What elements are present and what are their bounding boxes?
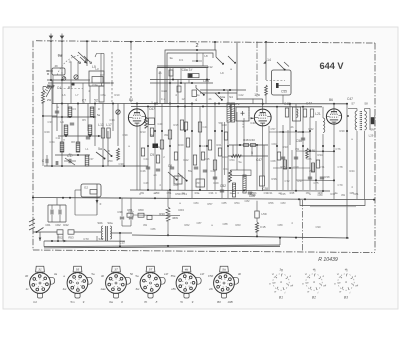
svg-text:C83: C83 xyxy=(281,201,286,205)
wire v90 xyxy=(89,86,91,104)
svg-text:R4a: R4a xyxy=(195,191,200,195)
base diagram B1 xyxy=(273,274,289,290)
capacitor C22 xyxy=(168,130,171,139)
resistor R19 xyxy=(213,160,216,170)
svg-text:L8: L8 xyxy=(204,54,208,58)
svg-text:R8: R8 xyxy=(71,140,75,144)
capacitor C21 xyxy=(198,122,201,132)
wire v237 xyxy=(236,112,238,170)
resistor ladder R10 xyxy=(68,107,72,117)
choke L59 xyxy=(255,211,259,218)
tube socket V6 xyxy=(233,277,239,284)
svg-text:2: 2 xyxy=(195,43,198,49)
base diagram B3 xyxy=(338,274,354,290)
svg-text:a4: a4 xyxy=(154,173,157,177)
svg-text:30: 30 xyxy=(25,274,29,278)
resistor R27 xyxy=(303,109,306,117)
svg-text:4W: 4W xyxy=(164,133,168,137)
svg-text:C72: C72 xyxy=(285,179,290,183)
coil box tall xyxy=(99,86,104,102)
choke L21 xyxy=(323,118,325,132)
bus hook x280 xyxy=(279,238,281,245)
svg-text:C88: C88 xyxy=(223,222,228,226)
resistor F15 xyxy=(255,222,258,232)
svg-text:C80: C80 xyxy=(318,193,323,197)
svg-text:R53: R53 xyxy=(68,236,74,240)
svg-text:B6: B6 xyxy=(329,98,333,102)
resistor R61 xyxy=(127,213,133,217)
svg-text:vt: vt xyxy=(337,272,339,276)
svg-text:3b: 3b xyxy=(238,272,242,276)
svg-text:12: 12 xyxy=(230,191,233,195)
capacitor C67 box xyxy=(149,118,155,125)
svg-text:C48: C48 xyxy=(211,169,216,173)
wire caps to bus xyxy=(56,198,58,205)
resistor ladder right2 xyxy=(311,163,314,172)
resistor R28 xyxy=(310,109,313,117)
svg-text:F: F xyxy=(100,202,102,206)
wire v277 xyxy=(276,107,278,190)
svg-text:R24: R24 xyxy=(224,167,229,171)
svg-text:12a: 12a xyxy=(254,93,260,97)
svg-text:55: 55 xyxy=(76,267,80,271)
svg-text:S8: S8 xyxy=(364,102,368,106)
svg-text:C b: C b xyxy=(179,58,184,62)
svg-text:3b: 3b xyxy=(101,274,105,278)
section divider dash-dot lower xyxy=(302,200,304,252)
svg-text:S7: S7 xyxy=(351,102,355,106)
svg-text:C13: C13 xyxy=(119,241,125,245)
svg-text:C64: C64 xyxy=(272,142,277,146)
coil L13 xyxy=(85,155,89,166)
svg-text:C75: C75 xyxy=(314,181,319,185)
svg-text:4W: 4W xyxy=(341,193,345,197)
svg-text:C44: C44 xyxy=(144,157,149,161)
tube socket V4 xyxy=(160,277,166,284)
svg-text:1b: 1b xyxy=(68,60,72,64)
svg-text:B1: B1 xyxy=(279,296,283,300)
svg-text:R49: R49 xyxy=(45,130,50,134)
resistor R25 xyxy=(265,85,268,95)
osc loop inner xyxy=(167,53,213,104)
svg-text:C33: C33 xyxy=(48,120,53,124)
volume pot box xyxy=(260,176,265,186)
svg-text:R 10439: R 10439 xyxy=(318,257,338,263)
trimmer C15 xyxy=(116,110,120,114)
resistor R9 xyxy=(117,148,120,160)
base diagram B2 xyxy=(306,274,322,290)
svg-text:C45: C45 xyxy=(205,157,210,161)
svg-text:2W: 2W xyxy=(47,98,52,102)
relay wire xyxy=(278,85,290,87)
wire y168 right xyxy=(273,167,310,169)
wire v292b xyxy=(291,150,293,190)
extra junction dots xyxy=(154,130,156,132)
wire v124 xyxy=(123,104,125,167)
svg-text:R42: R42 xyxy=(63,223,69,227)
svg-text:L3: L3 xyxy=(95,67,99,71)
IF winding K1 hatched xyxy=(227,103,230,122)
svg-text:C85: C85 xyxy=(222,201,227,205)
svg-text:C69: C69 xyxy=(294,165,299,169)
svg-text:1aw: 1aw xyxy=(100,287,106,291)
wire v157 xyxy=(156,68,158,104)
capacitor C77 xyxy=(129,216,133,218)
svg-text:3a: 3a xyxy=(169,56,173,60)
svg-text:C37: C37 xyxy=(89,157,94,161)
svg-text:C63: C63 xyxy=(178,208,184,212)
wire v288 xyxy=(287,130,289,190)
black blob pad xyxy=(153,144,159,149)
resistor R48 xyxy=(244,144,249,147)
switch S3c xyxy=(215,93,221,99)
output transformer S8 xyxy=(355,111,357,130)
wire y241 xyxy=(44,240,125,242)
capacitor C23b xyxy=(160,140,163,149)
svg-text:5a: 5a xyxy=(97,113,101,117)
extra caps xyxy=(146,166,150,168)
svg-text:5a: 5a xyxy=(239,160,242,164)
wire tube1 bottom xyxy=(136,126,138,190)
svg-text:S6b: S6b xyxy=(97,221,103,225)
wire v185b xyxy=(184,104,186,191)
svg-text:C78: C78 xyxy=(338,165,343,169)
svg-text:5b: 5b xyxy=(130,272,134,276)
wire left G2 connects xyxy=(75,189,81,191)
resistor R2 xyxy=(42,90,45,103)
wire v192 xyxy=(191,104,193,199)
svg-text:R35: R35 xyxy=(281,165,286,169)
svg-text:R63: R63 xyxy=(236,223,241,227)
mains switch S xyxy=(36,231,38,233)
wire top drop x87 xyxy=(86,41,88,61)
svg-text:F15: F15 xyxy=(260,225,266,229)
svg-text:L9: L9 xyxy=(220,71,224,75)
wire v108 xyxy=(107,131,109,166)
wire v347 xyxy=(346,104,348,238)
svg-text:5m: 5m xyxy=(70,300,75,304)
speaker xyxy=(369,109,371,131)
svg-text:L4: L4 xyxy=(60,120,64,124)
svg-text:C71: C71 xyxy=(320,165,325,169)
svg-text:3a: 3a xyxy=(54,272,58,276)
coil box 4 xyxy=(192,90,197,97)
svg-text:C a: C a xyxy=(161,97,166,101)
wire y80 xyxy=(47,79,90,81)
wire v44 low xyxy=(43,241,45,247)
svg-text:R36: R36 xyxy=(272,177,277,181)
bus y235 xyxy=(132,235,349,238)
resistor ladder L30b xyxy=(88,125,92,135)
svg-text:L7a: L7a xyxy=(235,102,240,106)
wire v118 xyxy=(117,104,119,147)
svg-text:5b: 5b xyxy=(219,121,222,125)
fuse R53 xyxy=(68,230,74,234)
svg-text:vt: vt xyxy=(305,272,307,276)
svg-text:R54: R54 xyxy=(235,201,240,205)
IFT S5 box xyxy=(236,107,249,121)
wire v52 xyxy=(51,80,53,166)
resistor R30 xyxy=(166,207,170,221)
resistor R40 xyxy=(251,144,256,147)
svg-text:4b: 4b xyxy=(291,125,294,129)
wire top drop x237 xyxy=(236,43,238,100)
svg-text:5a: 5a xyxy=(91,272,95,276)
svg-text:R13: R13 xyxy=(141,130,146,134)
capacitor C56 xyxy=(301,137,305,139)
wire v168 xyxy=(167,190,169,207)
wire y116 xyxy=(43,115,57,117)
svg-text:5M: 5M xyxy=(371,128,376,132)
svg-text:C47: C47 xyxy=(347,97,353,101)
capacitor C36 xyxy=(120,216,124,218)
svg-text:R15: R15 xyxy=(174,123,179,127)
svg-text:C50: C50 xyxy=(208,274,214,278)
antenna A1 xyxy=(49,36,54,39)
wire v40 arrow xyxy=(39,232,41,241)
resistor R42v xyxy=(229,170,232,182)
resistor ladder R11 xyxy=(76,142,80,152)
osc loop outer xyxy=(165,50,216,104)
svg-text:644 V: 644 V xyxy=(319,61,344,71)
wire pair top x101 xyxy=(95,54,101,84)
wire y206 inner xyxy=(310,206,356,208)
svg-text:S4: S4 xyxy=(229,95,233,99)
resistor R43v hatched xyxy=(243,175,246,193)
wire v178 xyxy=(177,80,179,104)
svg-text:R21: R21 xyxy=(217,143,222,147)
capacitor C17 xyxy=(68,159,70,163)
extra resistor boxes xyxy=(150,128,153,136)
svg-text:R29: R29 xyxy=(214,181,219,185)
wire v178b xyxy=(177,107,179,191)
svg-text:S12: S12 xyxy=(99,237,104,241)
svg-text:3a: 3a xyxy=(279,268,283,272)
wire v97 arrow xyxy=(96,184,98,215)
resistor ladder R10b xyxy=(90,107,94,117)
power transformer S6 xyxy=(101,226,102,239)
relay link dashes xyxy=(266,80,285,82)
svg-text:C56: C56 xyxy=(296,139,302,143)
angled resistor hatched xyxy=(46,86,52,97)
svg-text:R57: R57 xyxy=(208,202,213,206)
svg-text:C3b: C3b xyxy=(209,191,214,195)
capacitor C26b xyxy=(203,169,207,171)
wire y232 right xyxy=(74,231,101,233)
tube socket V2 xyxy=(87,277,93,284)
wire tube2 top xyxy=(262,99,264,109)
wire v257c xyxy=(256,201,258,211)
svg-text:C31: C31 xyxy=(268,191,273,195)
wire loop y205.5 xyxy=(300,199,365,205)
dashed gang link x112 xyxy=(111,52,113,104)
wire antenna drops xyxy=(50,41,52,80)
svg-text:4a: 4a xyxy=(197,93,200,97)
svg-text:4W: 4W xyxy=(143,223,147,227)
wire y83 xyxy=(48,82,110,84)
svg-text:57: 57 xyxy=(149,267,153,271)
schematic border left xyxy=(32,41,34,250)
svg-text:C46: C46 xyxy=(141,169,146,173)
wire v58 xyxy=(57,234,59,241)
switch S1 diagonals xyxy=(71,55,79,62)
wire top drop x131 xyxy=(130,42,132,48)
wire v257b xyxy=(256,145,258,190)
coupler box xyxy=(52,68,65,75)
dark box small xyxy=(72,83,75,86)
relay contact dark xyxy=(276,83,279,88)
svg-text:C87: C87 xyxy=(197,221,202,225)
svg-text:4b: 4b xyxy=(254,191,257,195)
capacitor C52 xyxy=(220,189,224,191)
antenna A2 xyxy=(60,36,65,39)
svg-text:5a: 5a xyxy=(135,274,139,278)
capacitor C25 xyxy=(156,168,160,170)
svg-text:5a: 5a xyxy=(98,147,102,151)
svg-text:37: 37 xyxy=(114,267,118,271)
wire tube2 bottom xyxy=(262,126,264,191)
bus y103.5 main xyxy=(131,103,347,105)
svg-text:4W: 4W xyxy=(309,169,313,173)
tube B6 xyxy=(326,109,341,124)
svg-text:R62: R62 xyxy=(185,223,190,227)
svg-text:L17: L17 xyxy=(106,123,112,127)
svg-text:S4a: S4a xyxy=(220,95,226,99)
wire v68 xyxy=(67,104,69,119)
svg-text:C23: C23 xyxy=(221,123,227,127)
wire v88 xyxy=(87,104,89,132)
schematic border top xyxy=(36,41,375,43)
switch S3a xyxy=(216,57,222,63)
resistor R41 h xyxy=(231,155,241,158)
svg-text:R37: R37 xyxy=(298,179,303,183)
resistor R1 angled xyxy=(46,85,54,88)
wire v228 xyxy=(227,122,229,198)
wire y215 xyxy=(75,214,97,216)
svg-text:C52: C52 xyxy=(220,184,226,188)
svg-text:C: C xyxy=(139,192,141,196)
box unit2 xyxy=(196,179,205,187)
wire y145 xyxy=(229,144,268,146)
svg-text:L59: L59 xyxy=(261,212,266,216)
svg-text:55a: 55a xyxy=(171,274,176,278)
svg-text:C86: C86 xyxy=(151,227,156,231)
svg-text:C84: C84 xyxy=(194,201,199,205)
wire v264 xyxy=(263,145,265,176)
wire y215 mid xyxy=(133,214,180,216)
svg-text:C51: C51 xyxy=(167,191,172,195)
svg-text:C3: C3 xyxy=(72,107,76,111)
svg-text:L13: L13 xyxy=(98,123,104,127)
svg-text:C68: C68 xyxy=(271,159,276,163)
bus y93 xyxy=(200,92,237,94)
fuse R52 xyxy=(57,230,63,234)
osc inner wires xyxy=(159,71,161,104)
wire left drop xyxy=(42,87,44,91)
coil L17 xyxy=(107,128,110,138)
tube B4 xyxy=(128,109,145,126)
bus y90 xyxy=(200,89,246,91)
switch S2 cluster xyxy=(96,152,104,158)
svg-text:C2a: C2a xyxy=(92,83,98,87)
svg-text:C53: C53 xyxy=(196,181,201,185)
schematic border bottom xyxy=(33,250,375,253)
arrow diag xyxy=(80,57,86,63)
wire v95 xyxy=(94,104,96,147)
svg-text:C54: C54 xyxy=(230,158,235,162)
right coil box L3 xyxy=(89,71,104,86)
wire top drop x215 xyxy=(214,42,216,50)
trimmer C1 xyxy=(62,77,66,81)
svg-text:R56: R56 xyxy=(269,201,274,205)
svg-text:C90: C90 xyxy=(316,225,321,229)
switch wafer dashed arc xyxy=(57,55,80,75)
svg-text:R23: R23 xyxy=(223,155,228,159)
capacitor C18 xyxy=(70,122,74,124)
wire v200 xyxy=(199,107,201,191)
wire v148 xyxy=(147,107,149,191)
svg-text:R50: R50 xyxy=(108,159,113,163)
svg-text:19B: 19B xyxy=(227,300,232,304)
pickup coil box xyxy=(188,74,199,78)
svg-text:C67: C67 xyxy=(149,107,155,111)
svg-text:B4: B4 xyxy=(129,98,133,102)
svg-text:R7: R7 xyxy=(68,86,72,90)
svg-text:4t: 4t xyxy=(345,268,348,272)
svg-text:C34: C34 xyxy=(50,140,55,144)
svg-text:C59: C59 xyxy=(298,130,303,134)
capacitor C16 xyxy=(55,110,59,112)
svg-text:2b: 2b xyxy=(209,97,212,101)
svg-text:C57: C57 xyxy=(271,127,276,131)
wire v222 xyxy=(221,122,223,198)
IFT arrow xyxy=(251,117,255,119)
svg-text:C81: C81 xyxy=(354,192,359,196)
wire v244 xyxy=(243,118,245,178)
wire v53 xyxy=(52,75,54,104)
resistor R44v hatched xyxy=(232,183,235,197)
resistor R46 xyxy=(306,148,309,158)
switch S5 diagonals xyxy=(168,172,176,179)
svg-text:C89: C89 xyxy=(278,223,283,227)
svg-text:R10: R10 xyxy=(115,93,120,97)
svg-text:49: 49 xyxy=(54,64,58,68)
IF winding K2 hatched xyxy=(231,103,234,122)
wire v215 xyxy=(214,104,216,191)
wire y83 mid xyxy=(150,82,213,84)
svg-text:5tt: 5tt xyxy=(222,267,226,271)
svg-text:5t: 5t xyxy=(180,300,183,304)
svg-text:C39: C39 xyxy=(123,133,128,137)
svg-text:4tt: 4tt xyxy=(185,267,189,271)
trimmer C2 xyxy=(74,75,78,79)
wire v303 xyxy=(302,107,304,190)
svg-text:c8b: c8b xyxy=(171,287,176,291)
capacitor C20 xyxy=(180,120,183,130)
svg-text:b4: b4 xyxy=(33,300,37,304)
svg-text:C55: C55 xyxy=(281,90,287,94)
svg-text:C82: C82 xyxy=(245,199,250,203)
section divider dash-dot upper xyxy=(256,42,258,98)
svg-text:R20: R20 xyxy=(179,143,184,147)
capacitor C26 xyxy=(248,191,252,193)
svg-text:52: 52 xyxy=(94,99,98,103)
svg-text:R45: R45 xyxy=(290,191,295,195)
resistor R70 xyxy=(277,152,280,160)
svg-text:C41: C41 xyxy=(203,125,208,129)
wire relay drop xyxy=(282,95,284,104)
resistor R14 xyxy=(145,117,148,128)
